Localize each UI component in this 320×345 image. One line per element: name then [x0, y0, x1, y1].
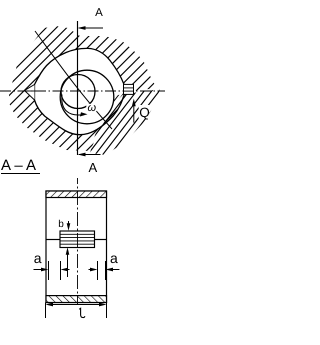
label Q (follower force) — [139, 105, 150, 120]
white halo behind omega label — [86, 104, 96, 111]
label A (bottom section arrow) — [85, 160, 101, 175]
label l (length) — [79, 308, 85, 317]
cavity outline — [35, 48, 125, 134]
L dimension — [45, 303, 47, 319]
follower rectangle — [124, 84, 134, 94]
label b (keyway width) — [58, 219, 64, 230]
label a (left) — [34, 250, 42, 266]
bore line — [46, 239, 60, 241]
housing hatching (45 deg) — [0, 8, 250, 160]
vertical section line — [77, 21, 79, 155]
label a (right) — [110, 250, 118, 266]
V-notch at left vertex — [25, 85, 35, 101]
follower-side fan hatching (steeper, denser) — [31, 80, 206, 160]
top section arrow — [79, 27, 103, 29]
section centerline — [77, 178, 79, 305]
label A (top section arrow) — [91, 7, 107, 19]
label omega (angular velocity) — [88, 102, 97, 114]
key block — [60, 231, 95, 248]
eccentric disc — [60, 70, 114, 124]
centerline solid segment through vertex — [29, 90, 41, 92]
section view A-A — [46, 191, 107, 303]
a dimension left — [48, 261, 50, 280]
b dimension arrows — [68, 221, 70, 227]
label A-A (section title) — [1, 157, 36, 174]
horizontal centerline — [0, 90, 165, 92]
a dimension right — [97, 261, 99, 280]
rotation arc with arrow — [62, 95, 84, 116]
parting diagonal — [35, 31, 112, 129]
underline of section title — [1, 173, 40, 174]
bottom section arrow — [79, 154, 101, 156]
shaft circle — [61, 75, 95, 109]
Q force arrow — [139, 105, 150, 119]
